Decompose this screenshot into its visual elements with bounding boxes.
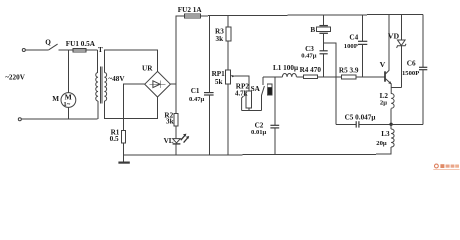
svg-text:100P: 100P	[344, 43, 358, 50]
wire top rail	[176, 14, 423, 15]
svg-text:VL: VL	[164, 137, 174, 145]
inductor L3	[376, 124, 394, 154]
svg-text:Q: Q	[45, 38, 51, 46]
svg-text:20μ: 20μ	[376, 140, 387, 147]
bridge rectifier UR	[142, 64, 170, 97]
switch Q	[45, 38, 57, 50]
label ~220V	[5, 73, 26, 81]
svg-text:M: M	[52, 95, 59, 103]
svg-text:R5 3.9: R5 3.9	[339, 67, 359, 75]
terminal bottom-left	[18, 118, 21, 121]
wire	[296, 76, 303, 78]
switch SA knob	[267, 84, 272, 95]
node junction	[389, 123, 392, 126]
wire	[122, 143, 124, 162]
svg-text:B: B	[310, 26, 315, 34]
resistor R2	[164, 112, 178, 126]
svg-text:2μ: 2μ	[380, 100, 387, 107]
svg-text:C6: C6	[407, 60, 416, 68]
wire	[86, 49, 97, 51]
transducer B	[310, 15, 330, 34]
wire secondary bottom to bridge	[104, 97, 157, 118]
wire base row	[317, 76, 341, 78]
svg-text:UR: UR	[142, 64, 153, 72]
svg-text:~220V: ~220V	[5, 73, 26, 81]
wire RP1 bottom	[227, 84, 229, 155]
wire	[67, 107, 69, 119]
svg-text:0.01μ: 0.01μ	[251, 129, 267, 136]
svg-text:0.5: 0.5	[110, 135, 119, 143]
svg-text:4.7k: 4.7k	[235, 91, 248, 98]
fuse FU1	[66, 40, 96, 52]
svg-text:FU2 1A: FU2 1A	[178, 6, 203, 14]
transformer T primary lead	[97, 50, 99, 72]
svg-text:C5 0.047μ: C5 0.047μ	[345, 113, 376, 121]
wire DC plus right vertex	[170, 16, 176, 114]
wire	[175, 126, 177, 138]
LED VL	[164, 134, 190, 155]
svg-text:C1: C1	[191, 87, 200, 95]
transistor V	[380, 15, 392, 94]
wire bottom rail	[123, 154, 390, 155]
switch SA	[251, 77, 265, 111]
svg-text:FU1 0.5A: FU1 0.5A	[66, 40, 96, 48]
svg-text:C4: C4	[349, 34, 358, 42]
svg-text:0.47μ: 0.47μ	[301, 53, 317, 60]
wire	[356, 76, 384, 78]
svg-text:0.47μ: 0.47μ	[189, 96, 205, 103]
fuse FU2	[178, 6, 203, 18]
resistor R5	[339, 67, 359, 80]
capacitor C2	[251, 84, 279, 155]
wire bottom AC	[21, 118, 97, 120]
wire	[25, 49, 48, 51]
resistor R1	[110, 128, 126, 143]
transformer core	[100, 67, 102, 104]
capacitor C3	[301, 45, 328, 77]
resistor R4	[300, 66, 322, 78]
svg-text:~48V: ~48V	[108, 75, 125, 83]
wire RP2 bottom	[242, 108, 262, 110]
svg-text:V: V	[380, 60, 386, 69]
transformer T secondary winding	[104, 73, 125, 102]
transformer T primary winding	[96, 46, 103, 119]
potentiometer RP1	[212, 70, 236, 86]
wire VD to emitter	[391, 86, 401, 88]
svg-text:SA: SA	[251, 85, 261, 93]
watermark logo	[433, 164, 459, 170]
svg-text:VD: VD	[388, 32, 400, 41]
svg-text:T: T	[98, 46, 103, 54]
svg-text:1~: 1~	[63, 101, 70, 108]
svg-text:L1 100μ: L1 100μ	[273, 64, 298, 72]
svg-text:R4 470: R4 470	[300, 66, 322, 74]
svg-text:3k: 3k	[166, 118, 174, 126]
wire RP1 wiper to RP2	[235, 76, 249, 91]
inductor L2	[380, 92, 395, 124]
zener diode VD	[388, 15, 406, 88]
capacitor C5	[336, 113, 391, 127]
svg-text:L3: L3	[381, 130, 390, 138]
wire B bottom node	[323, 34, 336, 77]
svg-text:RP1: RP1	[212, 70, 226, 78]
wire L1 feed	[263, 77, 283, 84]
wire feedback vertical	[335, 77, 337, 125]
wire DC minus left vertex	[123, 84, 144, 130]
potentiometer RP2	[235, 83, 251, 111]
wire	[227, 41, 229, 70]
svg-text:5k: 5k	[215, 78, 223, 86]
wire	[59, 49, 74, 51]
svg-text:RP2: RP2	[236, 83, 250, 91]
capacitor C4	[344, 15, 368, 77]
capacitor C1	[189, 16, 214, 156]
terminal top-left	[22, 49, 25, 52]
svg-text:3k: 3k	[216, 35, 224, 43]
svg-text:1500P: 1500P	[402, 70, 419, 77]
inductor L1	[273, 64, 298, 77]
ground	[118, 162, 129, 164]
resistor R3	[215, 16, 231, 43]
capacitor C6	[402, 14, 427, 124]
wire secondary top to bridge	[104, 50, 157, 73]
wire junction to C6	[391, 123, 423, 125]
motor M	[52, 92, 76, 108]
wire motor branch	[67, 50, 69, 92]
